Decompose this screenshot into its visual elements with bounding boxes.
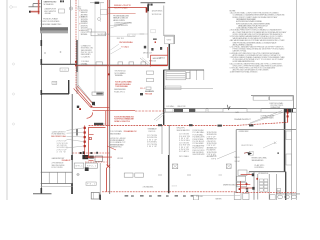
faint line y195.6 right (199, 195, 240, 197)
grid tick y124 (12, 123, 14, 125)
drain leader x263-275 y142-148 (263, 143, 275, 148)
label dashes mid-hall (158, 174, 162, 176)
svg-text:DN WALL: DN WALL (81, 62, 89, 65)
svg-text:2 IN V UP: 2 IN V UP (147, 146, 158, 148)
red main riser x108.2 (107, 0, 109, 166)
svg-text:6 IN FIRE MAIN: 6 IN FIRE MAIN (261, 117, 275, 120)
toilet room upper wall detail y171 text area lines (248, 172, 250, 175)
red branch y7.6 (108, 6, 146, 8)
svg-text:111: 111 (62, 69, 68, 71)
svg-text:VEST: VEST (167, 39, 173, 41)
dark equip x93 y122 (94, 123, 103, 126)
interior wall h y129.6 (236, 129, 296, 131)
red dashed equipment tie y162 (85, 161, 107, 163)
pump dark box 2 (89, 156, 94, 159)
svg-text:PLAN 2/P2.1: PLAN 2/P2.1 (114, 90, 126, 93)
jamb vertical x33 (32, 4, 34, 7)
svg-text:MEN: MEN (235, 157, 241, 159)
dark equip x151.5 y48 (151, 48, 153, 51)
lower line y186.5 (41, 186, 73, 188)
equip dark box pair x148 y4 (148, 4, 150, 6)
dark equip x140 y93 (140, 93, 143, 95)
toilet walls (253, 172, 255, 200)
wall h y64.3 (42, 63, 77, 65)
dark ticks under red main (125, 195, 193, 196)
wall h y69.8 (164, 69, 205, 71)
wall vertical x72.2 (71, 94, 73, 194)
faint vertical x95 (94, 3, 96, 93)
svg-text:10. SEE SHEET P0.1 FOR ALL SYM: 10. SEE SHEET P0.1 FOR ALL SYMBOLS (230, 71, 259, 74)
svg-text:2 IN CW SERVICE: 2 IN CW SERVICE (114, 25, 129, 27)
red valves on stack (84, 127, 86, 129)
dark wall seg (174, 109, 183, 112)
label box x100 y9.5 (101, 10, 108, 15)
svg-text:4 IN W: 4 IN W (57, 152, 66, 154)
red riser stack x84.7 (84, 125, 86, 155)
svg-text:MOUNT ON 18 IN STAND: MOUNT ON 18 IN STAND (41, 20, 61, 23)
faint vertical x79.8 (78, 0, 80, 93)
red dashed main y125 across hall (89, 122, 288, 125)
label box (74, 163, 84, 168)
svg-text:VALVE LOCATION: VALVE LOCATION (113, 19, 126, 22)
column marker x60 y52 (60, 51, 62, 53)
grid bubble top-left (10, 6, 13, 9)
bottom wall tick (33, 193, 52, 195)
label box x60 y68 (60, 68, 68, 71)
small junction box x88 y29 (88, 29, 92, 32)
hall right wall (284, 109, 286, 172)
check mark symbol x228 y107 (227, 105, 230, 110)
red main riser x75.3 (75, 0, 77, 88)
hall left wall x163.7 (163, 70, 165, 125)
svg-text:GAS: GAS (235, 111, 240, 114)
red bottom main right y192.3 (237, 191, 297, 193)
red dots at bend (77, 106, 79, 108)
red bottom tie y157 (85, 156, 112, 158)
svg-text:WOMEN 106: WOMEN 106 (258, 173, 269, 175)
svg-text:1/2 CW TO SK: 1/2 CW TO SK (152, 14, 163, 16)
pump dark box (82, 155, 88, 159)
dark equip x160.5 y47 (160, 47, 162, 50)
svg-text:UR 109: UR 109 (117, 158, 124, 160)
red riser right x287.6 (287, 109, 289, 123)
svg-text:ELEC 116: ELEC 116 (149, 61, 157, 63)
wall h y93.8 (42, 93, 70, 95)
sink counter bottom-right (276, 193, 300, 195)
label box x58.5 y9 (59, 9, 65, 13)
leader to annex (110, 23, 131, 26)
dark fixture marks near x247 y188 (246, 188, 248, 190)
svg-text:GAS METER SET: GAS METER SET (52, 157, 66, 160)
svg-text:DURING CONST: DURING CONST (271, 107, 282, 109)
svg-text:SEE ENLARGED: SEE ENLARGED (252, 159, 265, 162)
wall vertical x109.6 (109, 0, 111, 194)
svg-text:LOCATION: LOCATION (81, 55, 91, 58)
svg-text:RPZ-1: RPZ-1 (87, 165, 97, 167)
svg-text:4 IN SAN BEL: 4 IN SAN BEL (143, 186, 155, 189)
svg-text:RM 113A: RM 113A (145, 93, 153, 96)
wall vertical x148 (147, 3, 149, 59)
red riser x240 (239, 181, 241, 192)
svg-text:FOR PIPING: FOR PIPING (255, 167, 264, 169)
red dashed gas line y153 (73, 152, 111, 154)
red elbow x135.6 (146, 7, 148, 12)
side box (186, 72, 190, 78)
svg-text:TO LAV-1: TO LAV-1 (121, 45, 130, 48)
svg-text:PROVIDE T+P VALVE: PROVIDE T+P VALVE (43, 17, 59, 20)
svg-text:SEE DETAIL 3 SHEET P4.1: SEE DETAIL 3 SHEET P4.1 (41, 23, 63, 26)
equip dark box x94.7 y1.8 (95, 2, 100, 4)
red tie y184.3 (236, 183, 250, 185)
equip box with label (85, 163, 97, 168)
window seg (208, 109, 223, 112)
stair diagonal upper-left (140, 58, 151, 67)
svg-text:FD-1 TYP OF 3: FD-1 TYP OF 3 (242, 145, 254, 147)
red branch diagonal (107, 146, 116, 150)
top wall y2.6 x140-165 (141, 2, 166, 4)
svg-text:BELOW GRADE: BELOW GRADE (110, 132, 122, 135)
toilet stall grid (259, 179, 280, 194)
wall x169.2 (168, 125, 170, 155)
red left branch rect (89, 127, 106, 157)
dark title marks top edge (60, 0, 62, 2)
red bottom main y191.6 (102, 191, 237, 193)
red drop x167.6 (167, 47, 169, 55)
mop room boxes left of toilet (238, 170, 247, 175)
svg-text:09: 09 (129, 35, 135, 37)
svg-text:SEE RISER DIAG: SEE RISER DIAG (51, 135, 66, 138)
section triangle x249 y153 (247, 152, 252, 155)
red feed x105.8 down (105, 111, 107, 126)
dark junction box (92, 102, 95, 105)
wall vertical x41.5 (41, 0, 43, 194)
svg-text:104: 104 (211, 155, 217, 157)
boxed X fd x228 (226, 164, 231, 168)
svg-text:ROOF HYDRANT: ROOF HYDRANT (114, 6, 129, 9)
red fixture line y174.6 (241, 174, 253, 176)
svg-text:MECH 117: MECH 117 (143, 53, 153, 55)
column marker x78 y174.5 (77, 173, 79, 175)
red fittings on dashed riser (75, 61, 77, 63)
svg-text:TO FIXTURES BEL: TO FIXTURES BEL (115, 86, 129, 88)
red run to risers (93, 106, 110, 108)
dark wall seg (189, 109, 195, 112)
red valve mid (256, 178, 258, 180)
svg-text:1 IN IRR: 1 IN IRR (196, 196, 204, 198)
wall h y65.4 x76-168 (77, 64, 168, 66)
gray duct band (40, 27, 68, 31)
svg-text:THIS AREA: THIS AREA (115, 74, 124, 77)
svg-text:RM 101: RM 101 (149, 131, 157, 133)
red drop x106.6 to bottom main (106, 168, 108, 192)
label box x91 y32 (91, 32, 106, 36)
svg-text:RM 118: RM 118 (117, 38, 125, 40)
svg-text:SEE DETAIL 2/P4: SEE DETAIL 2/P4 (177, 129, 191, 132)
window seg (247, 109, 261, 112)
wall vertical x163.8 (163, 6, 165, 37)
label box x86 y182 (86, 182, 96, 185)
dark equip x144 y46 (144, 46, 146, 49)
red curve lower-left (87, 112, 93, 118)
dark wall seg right (284, 109, 293, 113)
svg-text:CORRIDOR 102: CORRIDOR 102 (239, 131, 250, 133)
red valve sq (89, 137, 91, 139)
stall dividers (48, 172, 50, 183)
wall y6.8 (29, 6, 41, 8)
svg-text:6 IN FIRE SVC BELOW: 6 IN FIRE SVC BELOW (223, 184, 238, 186)
label box x52 y81.5 (52, 82, 57, 85)
svg-text:FOR CONTIN: FOR CONTIN (52, 167, 64, 169)
svg-text:WOM: WOM (235, 161, 240, 163)
svg-text:WH-1: WH-1 (76, 165, 84, 167)
svg-text:WCO WALL: WCO WALL (179, 155, 190, 158)
top-right annex wall (251, 95, 294, 97)
toilet top wall y171.7 (249, 171, 286, 173)
red X symbol x108 y166 (107, 165, 110, 168)
leader diagonals to riser (111, 44, 120, 50)
svg-text:1/2 CW TO EWC: 1/2 CW TO EWC (152, 11, 164, 13)
two dark dots x154 y39 (153, 38, 155, 40)
svg-text:MODEL AO-100: MODEL AO-100 (44, 3, 55, 6)
label boxes left of wall (147, 71, 154, 74)
svg-text:MULTI-PURPOSE: MULTI-PURPOSE (98, 34, 111, 36)
top wall y3.6 (33, 3, 41, 5)
right sheet border (296, 0, 298, 200)
column marker x45 y53 (44, 52, 46, 54)
corridor wall x162 (161, 125, 163, 154)
svg-text:EX WALL: EX WALL (167, 105, 176, 108)
svg-text:TYP 6: TYP 6 (211, 158, 217, 160)
wall vertical x169.3 (168, 44, 170, 70)
svg-text:- 100 GAL: - 100 GAL (44, 12, 52, 15)
svg-text:1 IN CW DN IN WALL: 1 IN CW DN IN WALL (119, 41, 134, 44)
red riser top-left (38, 0, 40, 14)
red dot at pump (88, 156, 90, 158)
svg-text:METER: METER (216, 198, 223, 200)
window seg left (166, 109, 174, 112)
red cross tie y134.6 (89, 134, 94, 136)
grid tick y94 (12, 93, 14, 95)
small box bottom x91-99 (91, 192, 99, 199)
svg-text:DETAIL 5 ON SHT P5.0: DETAIL 5 ON SHT P5.0 (114, 120, 131, 123)
stall row top line (41, 171, 72, 173)
hall room number boxes (124, 173, 133, 177)
dark dampers on red main (158, 124, 162, 126)
wall vertical x76.5 (70, 0, 72, 64)
circle fixture x99 y19 (98, 18, 101, 21)
left sheet border (6, 0, 8, 200)
equipment pad box with text (166, 72, 186, 80)
svg-text:103: 103 (172, 186, 178, 188)
leader fan to stack (67, 128, 84, 148)
stair diagonals near x160 y115 (154, 112, 164, 120)
svg-text:4 IN: 4 IN (77, 9, 82, 11)
grid tick y64 (12, 63, 14, 65)
chase wall dark seg x77 (76, 129, 78, 136)
dark valve top-left (29, 11, 31, 13)
red branch y13.8 (108, 13, 135, 15)
circle fixture x71 y8.5 (69, 7, 72, 10)
svg-text:FCO AT FL: FCO AT FL (179, 150, 190, 153)
red bullets on legend list (78, 10, 81, 31)
red diagonal bundle to lower right (76, 88, 93, 107)
interior wall x236 (235, 130, 237, 193)
red room outline x150-167 (151, 55, 168, 65)
svg-text:ON SHEET P3.0: ON SHEET P3.0 (110, 147, 123, 149)
svg-text:3 IN W BEL: 3 IN W BEL (81, 34, 89, 36)
long thin line y36 x110-135 (110, 35, 135, 37)
window seg (196, 109, 207, 112)
boxed X fd x175 (172, 164, 177, 169)
dark box (85, 167, 89, 171)
wall vertical x68.7 (68, 80, 70, 94)
red fixture line y188 (241, 187, 253, 189)
stall row bottom line (41, 183, 72, 185)
wall step top-right of upper section (164, 34, 175, 36)
gas meter dark marks (80, 152, 82, 154)
shelf line y88.4 (164, 87, 214, 89)
svg-text:RELOC DR: RELOC DR (178, 106, 187, 108)
hall top wall y108.6 (164, 108, 297, 110)
svg-text:WH-1 WTR HTR: WH-1 WTR HTR (193, 154, 206, 156)
vertical service line x100 (99, 163, 101, 200)
small box x146 y87 (146, 87, 151, 89)
red wall line y65.7 (75, 65, 167, 67)
door diamond (151, 29, 156, 32)
svg-text:2 IN GAS BELOW: 2 IN GAS BELOW (124, 130, 137, 133)
svg-text:2 IN GAS ALONG STRUCT: 2 IN GAS ALONG STRUCT (234, 118, 252, 121)
label box x92 y92 with dark (92, 92, 103, 95)
leader diagonals top-right of hall (250, 111, 282, 123)
red dot x109 y74 (108, 73, 110, 75)
red stub (89, 160, 94, 162)
svg-text:FD-1: FD-1 (140, 88, 146, 90)
boxed X light x251 (249, 151, 253, 155)
dark bar x147.5 y4.5-11 (147, 5, 149, 12)
platform verticals right (196, 70, 198, 80)
svg-text:JAN 115: JAN 115 (159, 56, 166, 59)
fixture boxes bottom center-right (270, 195, 275, 200)
red dashed y111 x135-163.5 (135, 110, 164, 112)
faint h line y34 x135-148 (135, 33, 148, 35)
room labels in upper area small (53, 34, 172, 85)
red dot below (155, 41, 156, 43)
